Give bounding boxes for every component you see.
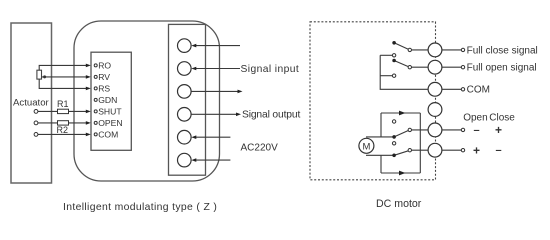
svg-text:+: +: [495, 123, 502, 137]
svg-text:RV: RV: [98, 72, 110, 82]
svg-text:–: –: [473, 124, 479, 136]
svg-text:R1: R1: [57, 99, 69, 109]
svg-text:Actuator: Actuator: [13, 97, 50, 108]
svg-text:OPEN: OPEN: [98, 118, 122, 128]
svg-text:COM: COM: [467, 85, 490, 96]
svg-text:GDN: GDN: [98, 95, 117, 105]
svg-text:Signal output: Signal output: [242, 110, 300, 121]
svg-text:M: M: [362, 141, 370, 152]
svg-text:+: +: [473, 143, 480, 157]
svg-text:COM: COM: [98, 129, 118, 139]
svg-text:AC220V: AC220V: [241, 142, 279, 153]
svg-text:R2: R2: [57, 125, 69, 135]
svg-text:RS: RS: [98, 83, 110, 93]
svg-text:Full open signal: Full open signal: [467, 63, 537, 74]
svg-text:RO: RO: [98, 60, 111, 70]
svg-text:SHUT: SHUT: [98, 106, 122, 116]
svg-text:Full close signal: Full close signal: [467, 45, 538, 56]
svg-text:–: –: [495, 145, 501, 157]
svg-text:Open: Open: [463, 113, 487, 124]
svg-text:Close: Close: [489, 113, 515, 124]
svg-text:Signal input: Signal input: [241, 64, 300, 75]
svg-text:DC motor: DC motor: [376, 198, 422, 210]
svg-text:Intelligent modulating type (: Intelligent modulating type ( Z ): [63, 202, 217, 213]
